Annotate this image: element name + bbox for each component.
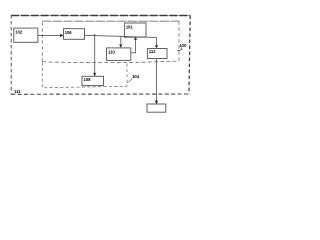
svg-text:104: 104 — [132, 74, 140, 79]
box 106 — [64, 29, 85, 40]
inner dashed box A (100) — [41, 21, 43, 62]
outer dashed box 111 top edge — [11, 15, 190, 17]
wire 112 down to 114 — [156, 59, 158, 103]
bus wire from 106 — [85, 35, 157, 37]
svg-text:101: 101 — [126, 24, 134, 29]
box 112 mid-right — [147, 49, 167, 59]
arrowhead into 108 — [93, 73, 96, 77]
outer dashed box 111 right edge — [189, 16, 190, 95]
svg-text:102: 102 — [15, 30, 23, 35]
junction drop to 110 — [120, 36, 122, 46]
junction drop to 108 — [94, 36, 96, 75]
outer dashed box 111 bottom edge — [11, 93, 189, 95]
box 114 bottom output — [147, 104, 166, 112]
svg-text:110: 110 — [108, 49, 115, 54]
arrowhead into 110 — [119, 45, 122, 48]
svg-text:111: 111 — [14, 89, 21, 94]
svg-text:112: 112 — [149, 49, 156, 54]
wire 102 to 106 — [38, 34, 62, 36]
svg-text:108: 108 — [84, 77, 92, 82]
bus drop to 112 — [156, 37, 158, 47]
wire 110 up to 101 — [131, 39, 136, 53]
arrowhead into 101 bottom — [134, 37, 137, 40]
outer dashed box 111 left edge — [10, 15, 12, 94]
svg-text:100: 100 — [179, 43, 187, 48]
box 108 — [82, 76, 104, 85]
arrowhead into 106 — [60, 34, 64, 37]
box 110 mid-left — [107, 48, 131, 61]
arrowhead into 114 — [155, 101, 158, 105]
arrowhead into 112 — [155, 45, 158, 48]
inner dashed box B (104) — [42, 63, 127, 88]
box 101 — [124, 23, 146, 37]
svg-text:106: 106 — [65, 30, 73, 35]
box 102 — [14, 28, 38, 42]
junction node on bus — [94, 34, 96, 36]
